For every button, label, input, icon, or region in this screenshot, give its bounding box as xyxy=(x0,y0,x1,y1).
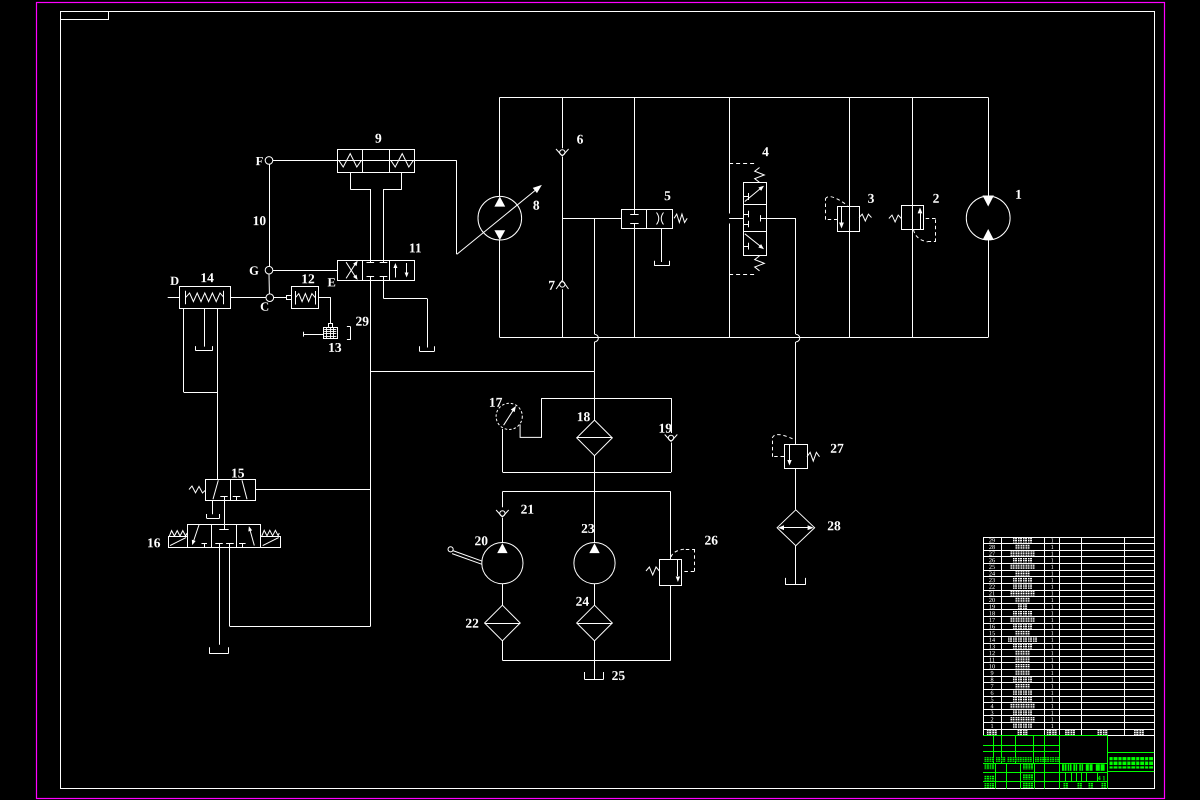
damper 12 xyxy=(292,287,319,309)
svg-text:25: 25 xyxy=(612,668,626,683)
line G to valve 11 port E xyxy=(273,270,338,272)
valve 27 to cooler 28 xyxy=(795,469,797,510)
gauge box top line xyxy=(542,398,672,400)
svg-text:4: 4 xyxy=(762,144,769,159)
svg-text:2: 2 xyxy=(933,191,940,206)
valve 3 spring xyxy=(859,214,871,221)
orifice 12 inlet square xyxy=(287,296,292,300)
parts list table xyxy=(983,537,1155,736)
svg-text:5: 5 xyxy=(664,188,671,203)
svg-text:15: 15 xyxy=(231,465,245,480)
line 14 down to valve 15 xyxy=(217,308,219,479)
line F to valve 9 xyxy=(273,160,338,162)
valve 15 right port line xyxy=(255,489,370,491)
gauge 17 branch to top line xyxy=(520,398,541,437)
line 10 F to G xyxy=(269,164,271,266)
valve 3 dashed pilot xyxy=(825,219,837,221)
pump 8 swash arrow xyxy=(457,190,536,255)
svg-text:11: 11 xyxy=(409,240,422,255)
pump box left line xyxy=(502,492,504,508)
variable pump 8 vertical line xyxy=(499,97,501,196)
gauge box bottom line xyxy=(503,472,671,474)
svg-text:20: 20 xyxy=(475,533,489,548)
gear pump 23 xyxy=(574,543,615,584)
valve 4 top spring xyxy=(755,168,765,183)
line valve 9 to pump control xyxy=(414,160,457,162)
valve 16 left spring xyxy=(169,531,187,537)
valve 15 tank stem xyxy=(212,500,214,514)
valve 15 spring xyxy=(189,486,206,493)
sequence valve 27 xyxy=(785,445,808,469)
title block xyxy=(983,745,1060,747)
filter 22 xyxy=(485,605,521,641)
bracket 29 xyxy=(350,327,352,340)
line from valve 4 down to valve 27 xyxy=(795,218,797,334)
line G to C xyxy=(268,274,270,294)
filter element 13 xyxy=(324,328,338,339)
suction filter 24 xyxy=(577,605,613,641)
junction vertical drop line x594.5 inside box xyxy=(594,219,596,335)
pump 23 feed line xyxy=(594,492,596,543)
gauge box right line xyxy=(671,398,673,433)
relief valve 26 xyxy=(660,560,682,586)
svg-text:12: 12 xyxy=(301,271,315,286)
svg-text:G: G xyxy=(249,264,259,278)
drawing title 液压系统图 xyxy=(1110,757,1118,769)
svg-text:14: 14 xyxy=(200,270,214,285)
svg-text:1: 1 xyxy=(1051,723,1054,730)
top-left border tab xyxy=(61,12,109,20)
counterbalance valve 2 xyxy=(902,206,924,230)
svg-text:27: 27 xyxy=(830,441,844,456)
cooler 28 tank stem xyxy=(795,546,797,585)
svg-text:9: 9 xyxy=(375,131,382,146)
valve 16 tank stem xyxy=(219,547,221,645)
title block texts xyxy=(985,757,989,762)
cooler 28 xyxy=(777,510,815,546)
valve 9 right spring xyxy=(391,154,414,167)
pilot valve 4 bottom dashed line xyxy=(729,274,755,276)
valve 27 spring xyxy=(807,452,820,461)
valve 14 tank stem xyxy=(204,308,206,347)
filter element 13 stub xyxy=(329,324,333,328)
pilot valve 4 top dashed line xyxy=(729,163,755,165)
valve 2 spring xyxy=(889,215,901,222)
hand pump 20 xyxy=(482,543,523,584)
svg-text:1: 1 xyxy=(1015,187,1022,202)
pump box top line xyxy=(502,491,670,493)
divider line left of valve 4 xyxy=(729,97,731,213)
hydraulic motor 1 xyxy=(966,196,1010,240)
svg-text:28: 28 xyxy=(827,518,841,533)
pressure valve 14 xyxy=(180,287,231,309)
node C xyxy=(266,294,274,302)
tank below valve 11 xyxy=(420,351,435,353)
svg-text:23: 23 xyxy=(581,521,595,536)
divider line through check valves 6-7 xyxy=(562,97,564,148)
pilot branch line to valve 5 xyxy=(562,218,621,220)
svg-text:21: 21 xyxy=(521,502,535,517)
node G xyxy=(265,266,273,274)
svg-text:18: 18 xyxy=(577,409,591,424)
divider line through valve 5 xyxy=(634,97,636,209)
pump box right line xyxy=(670,492,672,560)
svg-text:D: D xyxy=(170,274,179,288)
valve 16 left pilot box xyxy=(169,537,188,548)
svg-text:22: 22 xyxy=(465,616,479,631)
tank below valve 16 xyxy=(209,653,228,655)
svg-text:26: 26 xyxy=(705,533,719,548)
svg-text:E: E xyxy=(328,275,336,289)
valve 4 right port line xyxy=(766,218,796,220)
valve 27 dashed pilot xyxy=(772,456,784,458)
svg-text:24: 24 xyxy=(576,594,590,609)
return filter 18 xyxy=(577,420,613,456)
hydraulic motor 1 vertical line xyxy=(988,97,990,195)
valve 5 drain line xyxy=(661,228,663,262)
valve 11 main stem down xyxy=(370,277,372,627)
valve 5 spring xyxy=(674,214,687,222)
valve 26 spring xyxy=(646,567,659,575)
divider line through valve 3 xyxy=(849,97,851,337)
svg-text:1: 1 xyxy=(990,723,993,730)
svg-text:3: 3 xyxy=(868,191,875,206)
directional valve 11 xyxy=(338,261,415,281)
pressure gauge 17 xyxy=(496,403,522,429)
svg-text:6: 6 xyxy=(577,132,584,147)
line through filter 18 xyxy=(594,371,596,420)
line valve 15 to valve 16 xyxy=(224,500,226,524)
valve 2 dashed pilot xyxy=(914,230,928,242)
valve 4 bottom spring xyxy=(755,256,765,271)
valve 16 return loop xyxy=(229,547,231,626)
pump 23 to filter 24 xyxy=(594,584,596,606)
travel valve 16 xyxy=(188,525,261,548)
valve 16 right pilot box xyxy=(261,537,281,548)
pressure reducing valve 9 xyxy=(338,150,415,173)
unloading valve 5 xyxy=(622,210,673,229)
main tank 25 xyxy=(584,679,603,681)
svg-text:19: 19 xyxy=(658,421,672,436)
tank 25 stem xyxy=(594,660,596,679)
valve 16 right spring xyxy=(262,530,279,536)
line 12 to 13 xyxy=(319,297,331,299)
check valve 6 xyxy=(556,149,562,156)
pilot valve 15 xyxy=(206,480,256,501)
line hop at box bottom x795.9 xyxy=(796,334,800,342)
tank below valve 5 xyxy=(654,265,669,267)
svg-text:17: 17 xyxy=(489,395,503,410)
tank below cooler 28 xyxy=(786,584,805,586)
tank below valve 14 xyxy=(196,350,213,352)
svg-text:F: F xyxy=(256,154,264,168)
relief valve 3 xyxy=(838,207,860,232)
check valve 7 xyxy=(556,280,562,289)
hand pump 20 lever xyxy=(448,547,453,552)
solenoid valve 4 body xyxy=(744,183,767,256)
node F xyxy=(265,157,273,165)
svg-text:29: 29 xyxy=(355,314,369,329)
pressure valve 14 left stub xyxy=(168,297,180,299)
svg-text:13: 13 xyxy=(328,340,342,355)
line hop at box bottom x594.5 xyxy=(595,334,599,342)
valve 9 left spring xyxy=(339,154,362,167)
variable displacement pump 8 xyxy=(478,196,522,240)
junction line to lower center section xyxy=(370,371,594,373)
check valve 21 xyxy=(496,510,502,517)
svg-text:10: 10 xyxy=(253,213,267,228)
main circuit enclosure box xyxy=(500,97,989,99)
svg-text:8: 8 xyxy=(533,198,540,213)
divider line through valve 2 xyxy=(912,97,914,337)
pump box bottom line xyxy=(502,660,670,662)
tank below valve 15 xyxy=(207,518,220,520)
valve 9 to valve 11 T-link xyxy=(350,172,352,189)
line C to valve 14 xyxy=(230,297,266,299)
svg-text:16: 16 xyxy=(147,535,161,550)
valve 26 dashed pilot xyxy=(671,549,686,557)
svg-text:C: C xyxy=(260,300,269,314)
svg-text:7: 7 xyxy=(548,278,555,293)
svg-text:4 1: 4 1 xyxy=(1097,775,1105,782)
check valve 19 xyxy=(665,435,671,442)
valve 14 drain enclosure xyxy=(183,308,185,392)
valve 11 bottom stem to drain xyxy=(383,277,385,299)
vent line of 13 xyxy=(303,334,323,336)
valve 4 left port stub xyxy=(729,218,743,220)
hand pump 20 to filter 22 xyxy=(502,584,504,606)
gauge 17 drop line xyxy=(502,429,504,472)
